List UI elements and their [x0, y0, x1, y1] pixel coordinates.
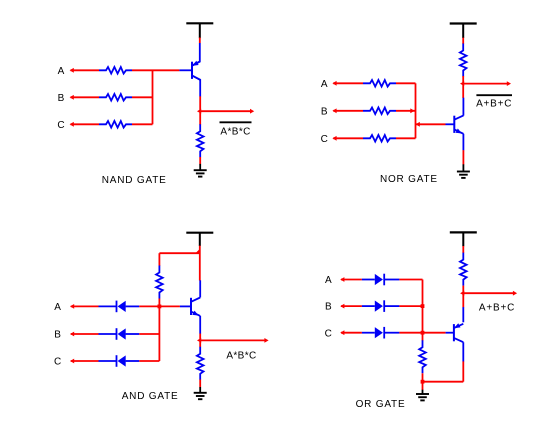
svg-text:B: B — [54, 330, 61, 341]
svg-text:B: B — [325, 302, 332, 313]
svg-text:A: A — [54, 302, 61, 313]
svg-text:B: B — [321, 106, 328, 117]
svg-text:NOR GATE: NOR GATE — [380, 174, 438, 185]
svg-text:A*B*C: A*B*C — [226, 351, 256, 362]
svg-text:NAND GATE: NAND GATE — [102, 175, 167, 186]
svg-text:AND GATE: AND GATE — [122, 391, 179, 402]
svg-text:C: C — [57, 120, 65, 131]
svg-text:B: B — [58, 93, 65, 104]
svg-text:A+B+C: A+B+C — [476, 98, 512, 109]
svg-text:A+B+C: A+B+C — [479, 303, 515, 314]
svg-text:A*B*C: A*B*C — [220, 126, 250, 137]
svg-text:C: C — [321, 134, 329, 145]
svg-text:C: C — [325, 328, 333, 339]
svg-text:A: A — [325, 275, 332, 286]
svg-text:OR GATE: OR GATE — [356, 399, 406, 410]
svg-text:C: C — [54, 357, 62, 368]
svg-text:A: A — [58, 66, 65, 77]
svg-text:A: A — [321, 79, 328, 90]
